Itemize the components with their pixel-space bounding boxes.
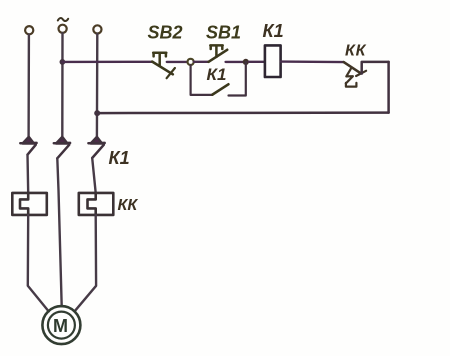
label KK contact [345,43,367,60]
wire control return bottom [97,111,388,114]
wire SB1 to node dot [226,61,243,63]
label K1 main contacts [109,148,130,168]
thermal heater KK pole1 [12,193,47,215]
wire L3 below contact [92,158,96,193]
svg-text:M: M [53,316,68,336]
wire L3 vertical top [96,34,99,138]
label SB1 [206,23,241,43]
node dot right of SB1 [243,59,249,65]
node circle (SB2/SB1/K1 junction) [188,59,194,65]
label K1 aux [207,65,227,84]
label K1 coil [263,21,284,41]
wire node to SB1 [194,61,209,63]
svg-text:КК: КК [345,43,367,60]
terminal L1 [25,26,33,34]
pushbutton SB1 NO blade [209,50,228,62]
wire control top [62,61,152,64]
pushbutton SB1 plunger [210,45,222,57]
AC tilde mark [58,18,68,21]
wire L1 to motor [28,215,49,312]
pushbutton SB2 terminal tick [167,68,175,78]
svg-text:SB2: SB2 [148,23,183,43]
wire L3 to motor [75,215,96,311]
wire L1 below contact [26,155,29,193]
svg-text:К1: К1 [207,65,227,84]
contact K1 aux left wire [191,65,213,95]
wire right vertical [387,62,390,113]
wire L2 below contact [57,158,61,306]
motor M inner circle [48,312,75,339]
contact KK NC blade [344,62,361,73]
pushbutton SB2 plunger [153,53,166,65]
contact KK fixed terminal [362,62,389,74]
label SB2 [148,23,183,43]
contactor main contact K1 pole2 [54,137,70,158]
thermal heater KK pole3 [79,193,114,215]
contactor main contact K1 pole1 [20,137,36,155]
contact K1 aux right wire [229,62,246,96]
terminal L3 [93,25,101,33]
label KK heaters [118,197,139,214]
contact K1 aux blade [212,84,228,94]
svg-text:КК: КК [118,197,139,214]
wire SB2 to node [167,61,188,63]
wire L1 vertical top [27,35,30,137]
motor M outer circle [42,306,80,344]
wire coil to KK [281,60,344,63]
contact KK thermal element [346,69,357,87]
svg-text:К1: К1 [263,21,284,41]
motor M letter [53,316,68,336]
node junction on L3 (control return) [94,110,100,116]
contact KK terminal tick [356,71,366,76]
svg-text:SB1: SB1 [206,23,241,43]
pushbutton SB2 NC blade [152,62,173,75]
node junction on L2 (control tap) [60,59,66,65]
svg-text:К1: К1 [109,148,130,168]
contactor main contact K1 pole3 [88,137,104,158]
wire L2 vertical top [61,33,64,138]
terminal L2 [59,25,67,33]
coil K1 [265,45,281,77]
wire dot to coil [249,61,265,63]
